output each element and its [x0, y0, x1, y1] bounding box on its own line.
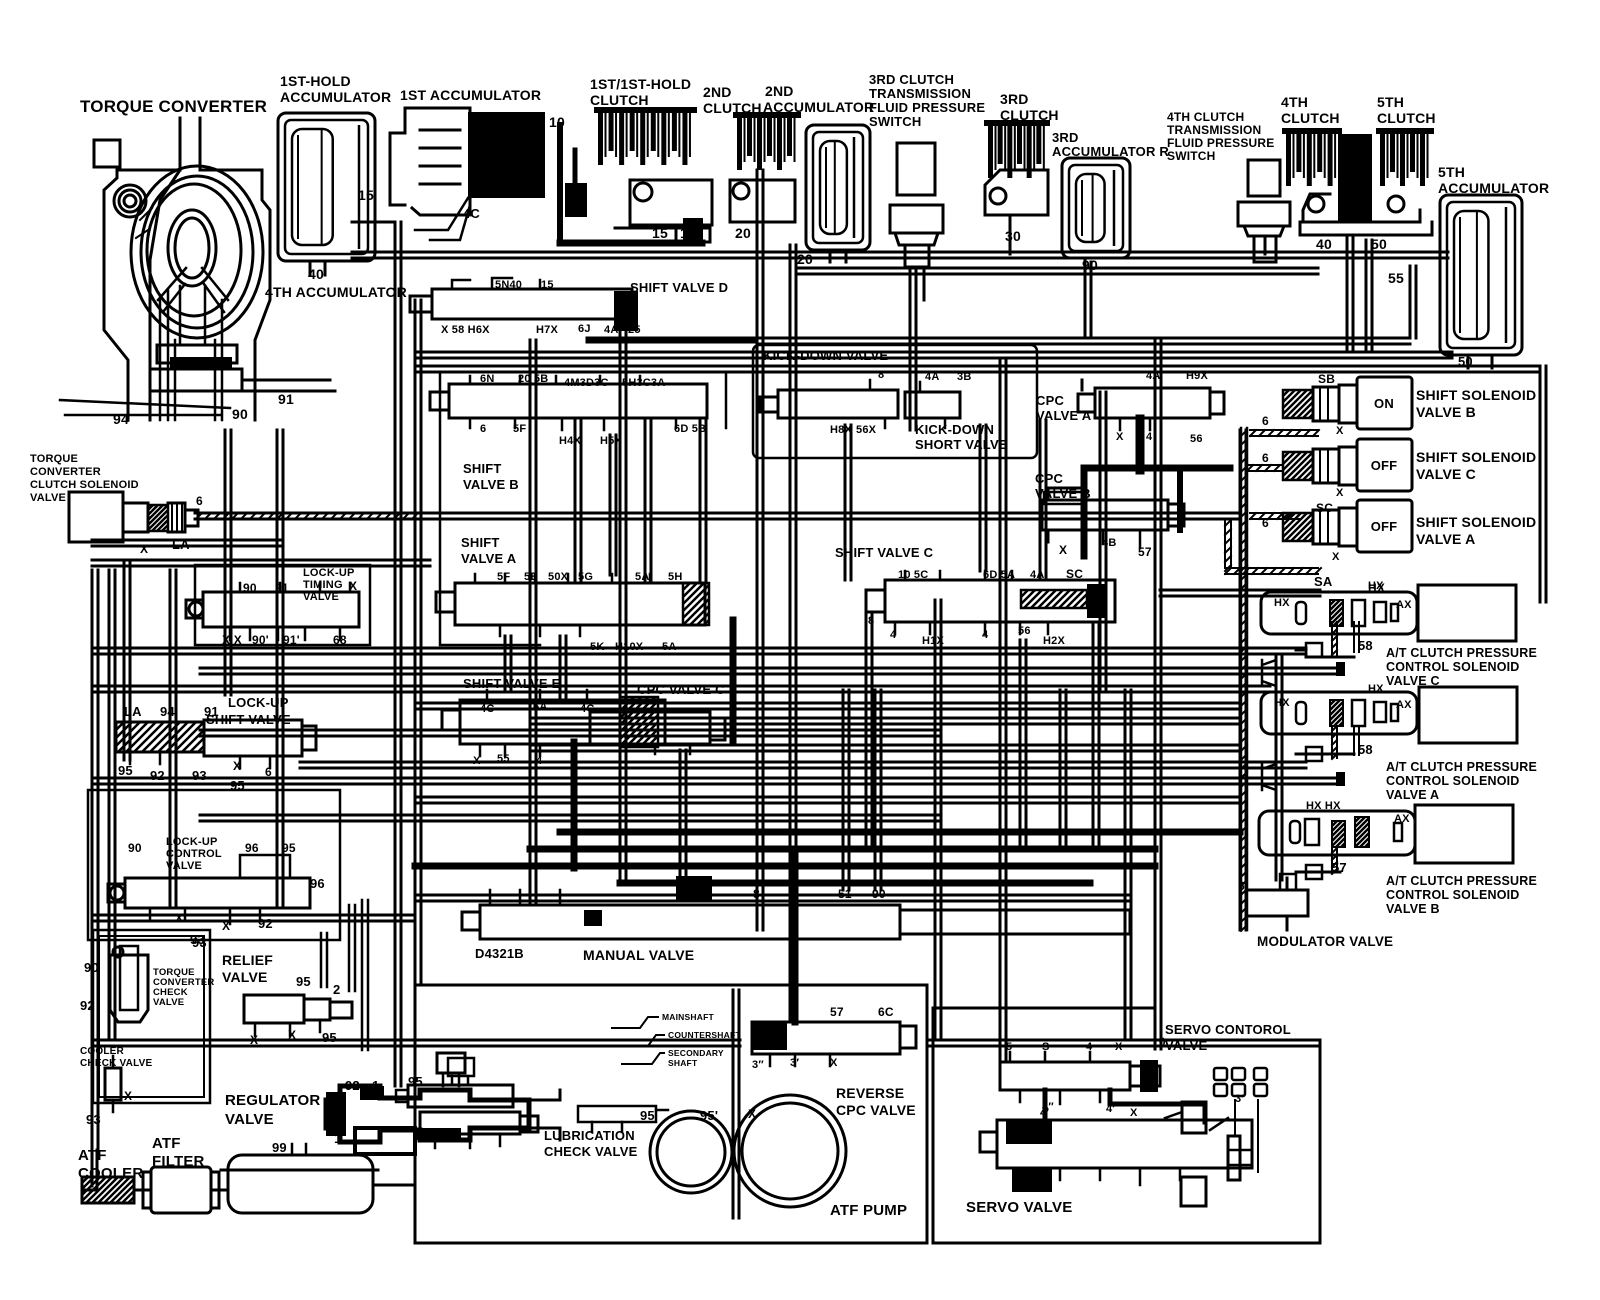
svg-text:4TH ACCUMULATOR: 4TH ACCUMULATOR [265, 284, 407, 300]
svg-text:HX: HX [1368, 580, 1384, 592]
svg-text:56X: 56X [856, 424, 877, 436]
label atf filter [152, 1135, 205, 1170]
label regulator valve [225, 1092, 320, 1128]
svg-text:1ST-HOLD: 1ST-HOLD [280, 73, 351, 89]
svg-text:X: X [830, 1057, 838, 1069]
svg-text:6A: 6A [533, 701, 547, 713]
svg-text:56: 56 [1190, 433, 1203, 445]
svg-text:ACCUMULATOR: ACCUMULATOR [763, 99, 874, 115]
label rv ports [250, 974, 340, 1047]
label cpc valve c [637, 682, 725, 697]
svg-text:2: 2 [790, 887, 797, 901]
label 15 10 [652, 225, 696, 244]
svg-text:90: 90 [243, 581, 257, 595]
label 4th clutch [1281, 94, 1340, 126]
svg-text:4M3D3C: 4M3D3C [564, 377, 609, 389]
label mainshaft [612, 1012, 714, 1028]
wire network [92, 170, 1546, 1218]
3rd clutch [984, 120, 1050, 215]
svg-text:1ST/1ST-HOLD: 1ST/1ST-HOLD [590, 76, 691, 92]
svg-text:H5X: H5X [600, 435, 622, 447]
svg-text:S: S [1042, 1041, 1050, 1053]
label atf pump [830, 1202, 907, 1219]
label 20 [735, 225, 751, 241]
svg-text:H7X: H7X [536, 324, 558, 336]
svg-text:3RD CLUTCH: 3RD CLUTCH [869, 72, 954, 87]
svg-text:SHIFT SOLENOID: SHIFT SOLENOID [1416, 387, 1536, 403]
svg-text:CPC VALVE C: CPC VALVE C [637, 682, 725, 697]
label kd ports [830, 369, 971, 436]
torque converter clutch solenoid valve [69, 492, 198, 542]
svg-text:90: 90 [1082, 257, 1098, 273]
label solenoid state 0 [1374, 396, 1394, 411]
label at b hx ax [1306, 800, 1410, 825]
svg-text:40: 40 [308, 266, 324, 282]
A/T solenoid valve C body [1261, 585, 1516, 641]
svg-text:H4X: H4X [559, 435, 581, 447]
wire heavy runs [415, 620, 1240, 1022]
label 15 [358, 187, 374, 203]
enclosure box cooler [93, 930, 210, 1103]
label 90r [1082, 257, 1098, 273]
wire heavy 25 run [589, 337, 755, 344]
svg-text:5E: 5E [524, 571, 538, 583]
enclosure box bottom center [415, 985, 927, 1243]
label svc ports [868, 567, 1083, 647]
svg-text:TORQUE: TORQUE [30, 453, 78, 465]
1st/1st-hold clutch [594, 107, 712, 243]
wire heavy cpc b drop [1136, 419, 1145, 470]
svg-text:LOCK-UP: LOCK-UP [166, 836, 218, 848]
label tccv [153, 967, 214, 1008]
svg-text:X: X [473, 755, 481, 767]
svg-text:96: 96 [245, 841, 259, 855]
svg-text:X: X [1115, 1041, 1123, 1053]
svg-text:96: 96 [310, 876, 325, 891]
svg-text:TIMING: TIMING [303, 579, 343, 591]
svg-text:6D 5B: 6D 5B [674, 423, 706, 435]
label 3rd accumulator [1052, 130, 1169, 159]
label cpcb ports [1059, 537, 1152, 559]
label solenoid state 2 [1371, 519, 1398, 534]
svg-text:3′: 3′ [1235, 1093, 1244, 1105]
svg-text:LOCK-UP: LOCK-UP [303, 567, 355, 579]
svg-text:X: X [140, 542, 148, 556]
label 1st accumulator [400, 87, 541, 103]
svg-text:3″: 3″ [752, 1059, 764, 1071]
svg-text:X: X [222, 919, 230, 933]
svg-text:MANUAL VALVE: MANUAL VALVE [583, 947, 694, 963]
lubrication check valve [396, 1058, 668, 1148]
svg-text:20 5B: 20 5B [518, 373, 548, 385]
shift valve C [866, 571, 1115, 634]
svg-text:4A: 4A [925, 371, 939, 383]
svg-text:3B: 3B [957, 371, 971, 383]
svg-text:KICK-DOWN: KICK-DOWN [915, 422, 994, 437]
svg-text:CPC: CPC [1036, 393, 1064, 408]
svg-text:10 5C: 10 5C [898, 569, 928, 581]
svg-text:VALVE: VALVE [222, 969, 268, 985]
svg-text:55: 55 [497, 753, 510, 765]
svg-text:SWITCH: SWITCH [1167, 149, 1216, 163]
svg-text:50: 50 [1371, 236, 1387, 252]
svg-text:57: 57 [830, 1005, 844, 1019]
svg-text:5N40: 5N40 [495, 279, 522, 291]
svg-text:VALVE B: VALVE B [1386, 902, 1440, 916]
lock-up control valve [108, 855, 310, 924]
svg-text:HX: HX [1274, 697, 1290, 709]
svg-text:15: 15 [652, 225, 668, 241]
label 20 b [797, 251, 813, 267]
svg-text:6: 6 [1262, 451, 1269, 465]
svg-text:X: X [250, 1033, 258, 1047]
label at solenoid c [1386, 646, 1537, 688]
svg-text:SHIFT VALVE E: SHIFT VALVE E [463, 676, 561, 691]
label gear letters [475, 946, 524, 961]
svg-text:H2X: H2X [1043, 635, 1065, 647]
svg-text:3′: 3′ [790, 1057, 799, 1069]
svg-text:CONTROL SOLENOID: CONTROL SOLENOID [1386, 660, 1520, 674]
svg-text:4: 4 [982, 629, 989, 641]
svg-text:90: 90 [128, 841, 142, 855]
1st accumulator [390, 108, 545, 240]
label 55 [1388, 270, 1404, 286]
svg-text:CLUTCH SOLENOID: CLUTCH SOLENOID [30, 479, 139, 491]
svg-text:VALVE B: VALVE B [463, 477, 519, 492]
label lsv ports [118, 704, 272, 793]
manual valve [462, 876, 1130, 939]
svg-text:ATF PUMP: ATF PUMP [830, 1202, 907, 1219]
label rcp ports [752, 1005, 894, 1071]
svg-text:5H: 5H [668, 571, 682, 583]
label relief valve [222, 952, 273, 985]
svg-text:AX: AX [1396, 599, 1412, 611]
label 93 top [192, 935, 207, 950]
svg-text:SERVO VALVE: SERVO VALVE [966, 1199, 1072, 1216]
svg-text:MODULATOR VALVE: MODULATOR VALVE [1257, 934, 1393, 949]
svg-text:CLUTCH: CLUTCH [1377, 110, 1436, 126]
svg-text:6: 6 [480, 423, 486, 435]
svg-text:SHIFT SOLENOID: SHIFT SOLENOID [1416, 449, 1536, 465]
svg-text:40: 40 [1316, 236, 1332, 252]
servo valve [980, 1100, 1258, 1206]
svg-text:COOLER: COOLER [78, 1165, 143, 1182]
gear indicator [1214, 1068, 1267, 1096]
label torque converter [80, 97, 267, 116]
label 3rd clutch [1000, 91, 1059, 123]
svg-text:6: 6 [1262, 516, 1269, 530]
label shift valve c [835, 545, 934, 560]
svg-text:D4321B: D4321B [475, 946, 524, 961]
lock-up shift valve [86, 720, 316, 768]
svg-text:95: 95 [322, 1030, 337, 1045]
label svb ports [480, 373, 706, 447]
label reverse cpc valve [836, 1085, 916, 1118]
CPC valve B [1042, 468, 1230, 556]
hatched channel 6 line [196, 513, 420, 519]
2nd clutch [730, 112, 801, 222]
label lubrication check valve [544, 1128, 638, 1159]
shift valve D [410, 278, 638, 331]
svg-text:4: 4 [890, 629, 897, 641]
hatched channel solenoid b [1247, 430, 1319, 519]
label 5th clutch [1377, 94, 1436, 126]
svg-text:4C: 4C [480, 703, 494, 715]
fitting 643 [1296, 643, 1322, 657]
svg-text:SWITCH: SWITCH [869, 114, 921, 129]
CPC valve C [590, 712, 725, 754]
1st-hold accumulator [278, 113, 395, 275]
svg-text:4A: 4A [1030, 569, 1044, 581]
svg-text:VALVE: VALVE [225, 1111, 274, 1128]
svg-text:CHECK VALVE: CHECK VALVE [544, 1144, 638, 1159]
label countershaft [620, 1030, 741, 1046]
label 10 [549, 114, 565, 130]
svg-text:X: X [349, 579, 357, 593]
svg-text:4A: 4A [1146, 370, 1160, 382]
label 40 50 [1316, 236, 1387, 252]
modulator valve [1246, 874, 1308, 930]
svg-text:SC: SC [1316, 501, 1333, 515]
label tc 91 [278, 391, 294, 407]
label 4C [463, 206, 480, 221]
3rd clutch pressure switch [890, 143, 943, 300]
label lock-up control valve [166, 836, 222, 872]
svg-text:55: 55 [1388, 270, 1404, 286]
label atf cooler [78, 1147, 143, 1182]
svg-text:25: 25 [628, 324, 641, 336]
svg-text:92: 92 [345, 1078, 360, 1093]
label modulator valve [1257, 934, 1393, 949]
svg-text:91: 91 [278, 391, 294, 407]
svg-text:CPC: CPC [1035, 471, 1063, 486]
svg-text:8: 8 [868, 615, 874, 627]
relief valve [244, 995, 352, 1036]
svg-text:50: 50 [1458, 354, 1473, 369]
svg-text:5K: 5K [590, 641, 604, 653]
A/T solenoid valve A body [1261, 687, 1517, 743]
label shift valve b [463, 461, 519, 492]
label tccsv [30, 453, 139, 504]
label svd ports [441, 279, 641, 336]
label cpc valve a [1036, 393, 1092, 423]
svg-text:HX: HX [1274, 597, 1290, 609]
svg-text:VALVE A: VALVE A [461, 551, 517, 566]
label 50c [1458, 354, 1473, 369]
svg-text:4TH CLUTCH: 4TH CLUTCH [1167, 110, 1244, 124]
4th clutch [1282, 128, 1342, 186]
svg-text:4C: 4C [463, 206, 480, 221]
3rd accumulator [1062, 158, 1130, 272]
svg-text:51: 51 [838, 887, 852, 901]
fitting bowtie 660 [1262, 660, 1276, 686]
svg-text:H1X: H1X [922, 635, 944, 647]
svg-text:4′: 4′ [1106, 1103, 1115, 1115]
torque converter [60, 118, 335, 420]
svg-text:5H3C3A: 5H3C3A [622, 377, 665, 389]
svg-text:6C: 6C [878, 1005, 894, 1019]
svg-text:95: 95 [118, 763, 133, 778]
svg-text:KICK-DOWN VALVE: KICK-DOWN VALVE [763, 348, 888, 363]
svg-text:SC: SC [1066, 567, 1083, 581]
label shift valve e [463, 676, 561, 691]
svg-text:2ND: 2ND [703, 84, 732, 100]
label 30 [1005, 228, 1021, 244]
label sol ports [1262, 372, 1385, 595]
label 2nd accumulator [763, 83, 874, 115]
svg-text:VALVE B: VALVE B [1035, 486, 1091, 501]
svg-text:CONTROL SOLENOID: CONTROL SOLENOID [1386, 774, 1520, 788]
svg-text:VALVE: VALVE [153, 997, 184, 1008]
cooler check valve [105, 1056, 121, 1112]
label srv ports [1040, 1093, 1244, 1119]
svg-text:20: 20 [735, 225, 751, 241]
5th clutch [1376, 128, 1434, 186]
svg-text:FLUID PRESSURE: FLUID PRESSURE [869, 100, 985, 115]
wire heavy 15-10 run [560, 240, 702, 247]
svg-text:CONVERTER: CONVERTER [30, 466, 101, 478]
hatched channel sa [1225, 520, 1321, 574]
svg-text:1: 1 [334, 1130, 342, 1146]
svg-text:95: 95 [296, 974, 311, 989]
svg-text:COOLER: COOLER [80, 1046, 125, 1057]
svg-text:VALVE: VALVE [1165, 1038, 1208, 1053]
svg-text:CONTROL SOLENOID: CONTROL SOLENOID [1386, 888, 1520, 902]
svg-text:4: 4 [1146, 431, 1153, 443]
label 57b [1332, 860, 1347, 875]
2nd accumulator [806, 125, 870, 262]
label 90 92 [80, 960, 99, 1013]
svg-text:20: 20 [797, 251, 813, 267]
svg-text:X: X [1116, 431, 1124, 443]
label solenoid state 1 [1371, 458, 1398, 473]
label 99 [272, 1140, 287, 1155]
svg-text:VALVE: VALVE [303, 591, 339, 603]
ATF pump [650, 1095, 846, 1207]
svg-text:LOCK-UP: LOCK-UP [228, 695, 289, 710]
kick-down valves [760, 380, 960, 428]
label tccsv ports [140, 494, 203, 556]
label ccv x [86, 1089, 132, 1127]
svg-text:AX: AX [1396, 699, 1412, 711]
svg-text:5F: 5F [513, 423, 526, 435]
svg-text:5F: 5F [497, 571, 510, 583]
svg-text:HX HX: HX HX [1306, 800, 1341, 812]
svg-text:SHIFT SOLENOID: SHIFT SOLENOID [1416, 514, 1536, 530]
label servo valve [966, 1199, 1072, 1216]
svg-text:TRANSMISSION: TRANSMISSION [869, 86, 971, 101]
svg-text:REVERSE: REVERSE [836, 1085, 904, 1101]
svg-text:VALVE C: VALVE C [1416, 466, 1476, 482]
svg-text:X: X [1332, 551, 1340, 563]
svg-text:3RD: 3RD [1052, 130, 1079, 145]
svg-text:VALVE B: VALVE B [1416, 404, 1476, 420]
svg-text:CLUTCH: CLUTCH [590, 92, 649, 108]
svg-text:90: 90 [872, 887, 886, 901]
servo control valve [1000, 1052, 1205, 1122]
svg-text:SA: SA [1314, 574, 1333, 589]
label lock-up shift valve [206, 695, 291, 727]
svg-text:VALVE: VALVE [166, 860, 202, 872]
svg-text:6D 5A: 6D 5A [983, 569, 1015, 581]
svg-text:4B: 4B [1102, 537, 1116, 549]
reverse CPC valve [751, 1022, 916, 1066]
svg-text:LA: LA [172, 537, 190, 552]
label shift solenoid valve a [1416, 514, 1536, 547]
svg-text:X: X [233, 759, 241, 773]
svg-text:SECONDARY: SECONDARY [668, 1048, 724, 1058]
label cpc valve b [1035, 471, 1091, 501]
torque converter check valve [110, 946, 148, 1022]
svg-text:3RD: 3RD [1000, 91, 1029, 107]
ATF filter [143, 1167, 219, 1213]
label ltv ports [222, 579, 357, 647]
svg-text:CONTROL: CONTROL [166, 848, 222, 860]
svg-text:8: 8 [753, 887, 760, 901]
label shift solenoid valve b [1416, 387, 1536, 420]
svg-text:15: 15 [358, 187, 374, 203]
svg-text:MAINSHAFT: MAINSHAFT [662, 1012, 714, 1022]
svg-text:1: 1 [372, 1078, 379, 1093]
svg-text:AX: AX [1394, 813, 1410, 825]
label servo control valve [1165, 1022, 1291, 1053]
label shift valve a txt [461, 535, 517, 566]
svg-text:93: 93 [86, 1112, 101, 1127]
svg-text:15: 15 [541, 279, 554, 291]
svg-text:2ND: 2ND [765, 83, 794, 99]
svg-text:OFF: OFF [1371, 458, 1398, 473]
svg-text:COUNTERSHAFT: COUNTERSHAFT [668, 1030, 741, 1040]
label 4th accumulator [265, 284, 407, 300]
label manual valve [583, 947, 694, 963]
svg-text:REGULATOR: REGULATOR [225, 1092, 320, 1109]
svg-text:HX: HX [1368, 683, 1384, 695]
svg-text:CLUTCH: CLUTCH [703, 100, 762, 116]
svg-text:90: 90 [84, 960, 99, 975]
svg-text:57: 57 [1138, 545, 1152, 559]
enclosure box servo [933, 1008, 1320, 1243]
svg-text:5A: 5A [635, 571, 649, 583]
svg-text:H8X: H8X [830, 424, 852, 436]
5th accumulator [1440, 195, 1522, 368]
svg-text:10: 10 [680, 225, 696, 241]
label at c hx ax [1274, 580, 1412, 611]
svg-text:4: 4 [1086, 1041, 1093, 1053]
svg-text:LUBRICATION: LUBRICATION [544, 1128, 635, 1143]
label 4th clutch tfps [1167, 110, 1274, 163]
svg-text:VALVE A: VALVE A [1416, 531, 1475, 547]
svg-text:VALVE A: VALVE A [1036, 408, 1092, 423]
svg-text:A/T CLUTCH PRESSURE: A/T CLUTCH PRESSURE [1386, 874, 1537, 888]
svg-text:SHAFT: SHAFT [668, 1058, 698, 1068]
enclosure lock-up timing [195, 565, 370, 645]
label cooler check valve [80, 1046, 153, 1069]
shift valve E [442, 690, 704, 756]
shift solenoid VALVE C [1255, 439, 1412, 491]
svg-text:RELIEF: RELIEF [222, 952, 273, 968]
svg-text:SHIFT VALVE D: SHIFT VALVE D [630, 280, 728, 295]
svg-text:X: X [1336, 487, 1344, 499]
svg-text:56: 56 [1018, 625, 1031, 637]
label 1st-hold accumulator [280, 73, 391, 105]
svg-text:CPC VALVE: CPC VALVE [836, 1102, 916, 1118]
label sve ports [473, 701, 594, 767]
label tc 90 [232, 406, 248, 422]
4th clutch pressure switch [1238, 160, 1290, 262]
riser 57 B [1306, 848, 1340, 874]
svg-text:FLUID PRESSURE: FLUID PRESSURE [1167, 136, 1274, 150]
CPC valve A [1078, 380, 1224, 430]
